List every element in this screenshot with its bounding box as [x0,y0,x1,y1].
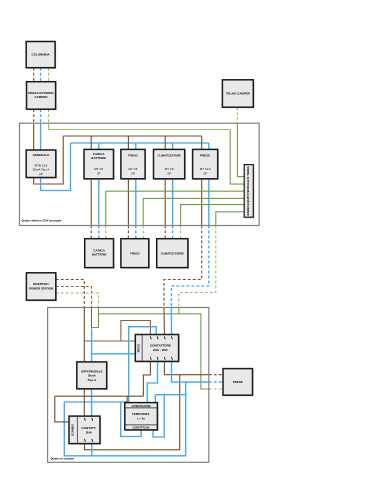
wire N prese circuit [171,226,208,308]
wire N bus [71,142,209,144]
wire N drop clima [172,143,174,226]
wire N temporizz right [155,394,185,396]
wire N colonnina-presa [40,68,42,82]
wire PE main to barra v [230,130,244,185]
svg-text:2NA - 2NC: 2NA - 2NC [153,348,169,352]
wire PE out dashed [209,388,223,390]
svg-text:ALIMENTAZIONE: ALIMENTAZIONE [131,405,151,408]
svg-text:30mA Tipo A: 30mA Tipo A [33,168,50,172]
wire PE inv elbow [92,308,99,328]
wire L colonnina-presa [33,68,35,82]
svg-text:CLIMATIZZATORE: CLIMATIZZATORE [161,251,184,255]
svg-text:POWER STATION: POWER STATION [29,286,53,290]
wire N drop carica [98,143,100,226]
wire N generale [41,123,71,190]
load CLIMATIZZATORE [157,239,189,269]
svg-text:Quadro elettrico 230V principa: Quadro elettrico 230V principale [22,219,62,223]
wire L bus scambio [84,340,135,342]
svg-text:SCAMBIO: SCAMBIO [71,424,75,436]
svg-text:GENERALE: GENERALE [33,153,50,157]
box TELAIO CAMPER [222,80,254,109]
box PRESE out [223,369,254,397]
wire PE presa-quadro [48,109,50,123]
wire L drop clima [164,136,166,226]
wire N out dashed [209,381,223,383]
svg-text:CLIMATIZZATORE: CLIMATIZZATORE [158,154,181,158]
wire PE prese circuit [179,226,216,308]
wire PE clima [181,205,245,226]
svg-text:2P: 2P [131,171,135,175]
breaker CLIMATIZZATORE [154,149,186,180]
wire L prese in [163,308,165,335]
wire L2 stub [91,308,93,328]
wire L presa-quadro [33,109,35,123]
wire L2 inverter [56,287,92,308]
barra equipotenziale di terra [244,165,254,219]
breaker FRIGO [121,149,146,180]
svg-text:BARRA EQUIPOTENZIALE DI TERRA: BARRA EQUIPOTENZIALE DI TERRA [246,166,250,215]
box INVERTER / POWER STATION [26,273,57,302]
panel quadro di scambio [48,308,209,463]
wire N scambio out [91,444,93,456]
differenziale 30mA [77,362,108,390]
wire L out dashed [209,374,223,376]
svg-text:t = 3s: t = 3s [137,416,145,420]
svg-text:2P: 2P [39,172,43,176]
wire N pin4b out [172,361,209,382]
svg-text:MTB C16: MTB C16 [35,163,48,167]
wire L1 inverter [56,280,85,308]
wire N to contatto NA left [121,402,142,437]
wire PE telaio-quadro [236,107,238,123]
load FRIGO [121,239,150,269]
wire N pin2b [147,361,157,402]
wire L bridge pin1 [121,321,150,342]
wire L1 to differenziale [83,308,85,362]
wire L bus396 [55,395,144,397]
wire PE inverter [56,293,99,308]
svg-text:2P: 2P [167,171,171,175]
svg-text:FRIGO: FRIGO [128,154,138,158]
wire L temporizz [126,396,128,402]
breaker CARICA BATTERIE [84,149,115,180]
svg-text:2P: 2P [97,171,101,175]
svg-text:CAMPER: CAMPER [34,95,48,99]
load CARICA BATTERIE [85,239,115,269]
box PRESA ESTERNA CAMPER [27,82,57,111]
wire PE feed clima [180,226,182,239]
wire L feed carica [90,226,92,239]
contattore U1 2NA-2NC [135,335,179,363]
wire L diff out [83,389,85,416]
wire N coil contattore [92,353,136,355]
wire L drop carica [90,136,92,226]
temporizzatore t=3s [125,403,159,431]
wire PE prese [216,212,244,226]
wire N drop prese [208,143,210,226]
wire PE prese in [178,308,180,314]
wire L drop prese [201,136,203,226]
svg-text:COLONNINA: COLONNINA [32,53,51,57]
wire N contatto NA right [153,395,164,437]
wire L pin1b jog [143,361,150,396]
svg-text:TELAIO CAMPER: TELAIO CAMPER [226,92,251,96]
svg-text:2P: 2P [203,171,207,175]
svg-text:MT C6: MT C6 [94,167,103,171]
wire L pin3b out [164,361,208,374]
svg-text:FRIGO: FRIGO [130,251,140,255]
wire PE telaio to barra [237,123,244,176]
breaker GENERALE [26,150,57,179]
wire PE main to barra h [49,123,231,129]
box COLONNINA [26,42,56,69]
svg-text:BATTERIE: BATTERIE [91,156,106,160]
svg-text:PRESE: PRESE [233,380,243,384]
wire N drop frigo [135,143,137,226]
wire L coil scambio [55,396,69,422]
wire L generale [34,123,64,184]
svg-text:FRIGO: FRIGO [137,344,141,353]
wire L switch loop [85,375,180,450]
svg-text:TEMPORIZZ.: TEMPORIZZ. [132,412,150,416]
wire PE rail [99,314,209,389]
svg-text:PRESE: PRESE [200,154,210,158]
wire PE colonnina-presa [48,68,50,82]
wire PE feed carica [105,226,107,239]
wire N temporizz right drop [154,395,156,403]
wire N chain [91,328,93,416]
wire PE carica [106,191,244,225]
wire N bridge pin2 [129,327,157,402]
wire N feed clima [172,226,174,239]
wire PE feed frigo [142,226,144,239]
svg-text:2NA: 2NA [86,430,93,434]
contatt scambio 2NA [69,416,101,445]
wire L feed frigo [127,226,129,239]
wire N presa-quadro [40,109,42,123]
wire PE frigo [143,198,244,225]
wire L prese circuit [164,226,202,308]
wire N prese in [170,308,172,335]
svg-text:MT C6: MT C6 [129,167,138,171]
wire N loop outer [64,382,185,456]
wire N bus402 [64,401,128,403]
svg-text:MT C6: MT C6 [165,167,174,171]
wire L bus [63,135,202,137]
svg-text:CONTATTO NA: CONTATTO NA [133,427,150,430]
svg-text:MT C10: MT C10 [200,167,211,171]
wire N feed frigo [135,226,137,239]
svg-text:Quadro di scambio: Quadro di scambio [51,457,75,461]
svg-text:Tipo A: Tipo A [87,378,97,382]
wire N feed carica [98,226,100,239]
svg-text:BATTERIE: BATTERIE [92,253,107,257]
breaker PRESE [193,149,219,180]
wire L feed clima [164,226,166,239]
wire L drop frigo [127,136,129,226]
panel quadro elettrico 230V principale [20,123,260,225]
